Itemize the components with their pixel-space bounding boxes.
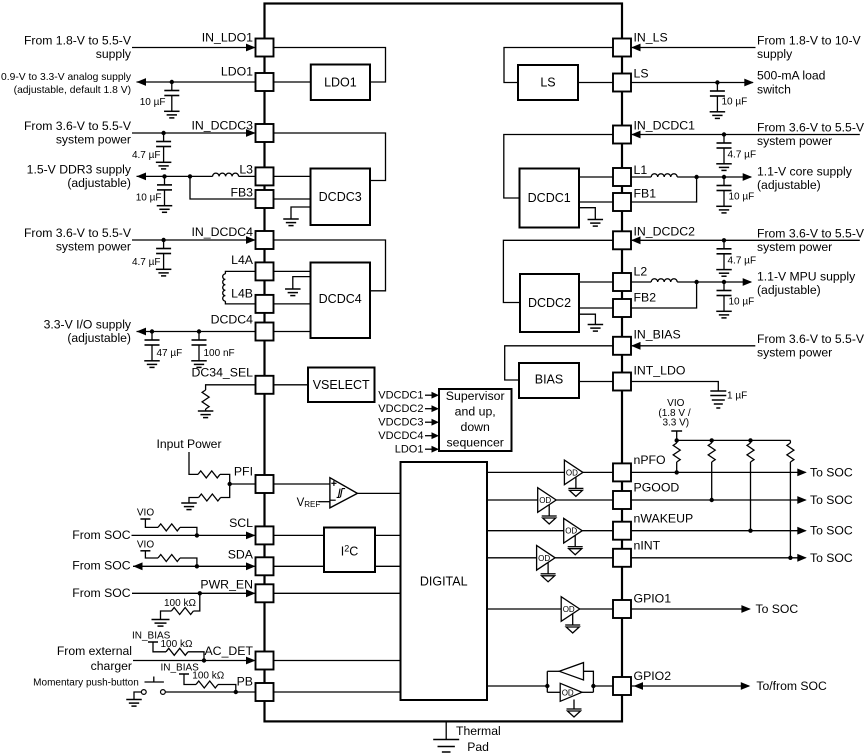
svg-text:From 1.8-V to 10-V: From 1.8-V to 10-V (757, 34, 862, 48)
wire AC_DET input (133, 660, 255, 662)
arrowhead into IN_DCDC4 (246, 236, 256, 244)
pin L3 (239, 163, 273, 186)
svg-text:100 nF: 100 nF (204, 348, 235, 359)
svg-text:supply: supply (96, 47, 132, 61)
svg-text:10 µF: 10 µF (729, 192, 755, 203)
wire PWR_EN input (132, 592, 255, 594)
svg-text:From SOC: From SOC (72, 528, 130, 542)
svg-text:From SOC: From SOC (72, 559, 130, 573)
wire FB3 pin to DCDC3 (274, 198, 311, 200)
label 3.3-V I/O supply (44, 318, 132, 346)
pin FB1 (613, 187, 656, 212)
node L3 cap junction (162, 174, 166, 178)
ground of DCDC3 (283, 207, 310, 226)
pin AC_DET (204, 644, 273, 670)
wire nWAKEUP to SOC (631, 530, 806, 532)
svg-text:L4A: L4A (231, 253, 254, 267)
wire IN_LDO1 input (132, 47, 255, 49)
svg-text:switch: switch (757, 83, 791, 97)
node DCDC4 cap junction 1 (150, 329, 154, 333)
svg-text:OD: OD (565, 527, 577, 536)
wire nINT buffer to pin (555, 557, 613, 559)
label VIO (1.8 V / 3.3 V) (658, 398, 690, 429)
wire SCL input (132, 534, 255, 536)
svg-text:Input Power: Input Power (156, 437, 221, 451)
label From 3.6-V to 5.5-V system power (DCDC4) (24, 226, 132, 254)
svg-text:I2C: I2C (341, 544, 359, 559)
pin LS (613, 67, 649, 92)
arrowhead into IN_BIAS (631, 342, 641, 350)
svg-text:10 µF: 10 µF (136, 193, 162, 204)
block supervisor/sequencer (439, 389, 512, 451)
wire FB3 feedback (190, 176, 256, 199)
pin IN_DCDC3 (192, 119, 274, 143)
wire GPIO2 top branch (547, 670, 559, 672)
svg-text:L2: L2 (634, 265, 648, 279)
wire GPIO2 bottom branch (547, 691, 560, 693)
node DCDC4 cap junction 2 (197, 329, 201, 333)
svg-text:IN_LDO1: IN_LDO1 (202, 31, 253, 45)
pin L4B (231, 287, 273, 313)
wire GPIO2 buffers to pin (593, 685, 613, 687)
wire L4A pin to DCDC4 (274, 270, 311, 272)
label From 3.6-V to 5.5-V system power (BIAS) (757, 332, 865, 360)
svg-text:IN_DCDC2: IN_DCDC2 (634, 225, 696, 239)
net VDCDC1 into sequencer (378, 390, 439, 402)
svg-text:OD: OD (562, 688, 574, 697)
wire L4B pin to DCDC4 (274, 303, 311, 305)
pin IN_BIAS (613, 328, 681, 355)
net VDCDC4 into sequencer (378, 430, 439, 442)
svg-text:(adjustable, default 1.8 V): (adjustable, default 1.8 V) (14, 85, 131, 96)
capacitor 4.7 uF (IN_DCDC3) with ground (132, 133, 171, 169)
svg-text:OD: OD (563, 605, 575, 614)
svg-text:and up,: and up, (455, 404, 496, 418)
wire GPIO2 left branch (546, 671, 548, 692)
svg-text:DCDC4: DCDC4 (319, 292, 362, 306)
wire SDA pin to I2C (274, 565, 325, 567)
svg-text:sequencer: sequencer (446, 436, 503, 450)
svg-text:FB2: FB2 (634, 291, 657, 305)
svg-text:IN_DCDC1: IN_DCDC1 (634, 119, 696, 133)
pin nPFO (613, 453, 666, 481)
open-drain buffer nPFO (564, 460, 583, 496)
pin SDA (228, 547, 274, 575)
label 1.1-V MPU supply (757, 270, 856, 298)
capacitor 1 uF (INT_LDO) with ground (710, 391, 747, 409)
block DCDC3 (311, 169, 371, 226)
wire comparator output to DIGITAL (357, 492, 400, 494)
net VDCDC2 into sequencer (378, 403, 439, 415)
svg-text:VIO: VIO (137, 508, 154, 519)
svg-text:LDO1: LDO1 (395, 444, 424, 456)
pin FB3 (230, 186, 273, 209)
wire INT_LDO pin to BIAS (579, 381, 613, 383)
wire PFI node down (221, 484, 230, 498)
svg-text:10 µF: 10 µF (729, 297, 755, 308)
svg-text:To SOC: To SOC (810, 493, 853, 507)
wire DIGITAL to GPIO2 buffers (487, 685, 547, 687)
svg-text:FB3: FB3 (230, 186, 253, 200)
block DCDC1 (520, 169, 580, 228)
svg-text:PFI: PFI (234, 465, 253, 479)
wire push-button to ground (134, 692, 141, 700)
wire LS pin to block (578, 82, 613, 84)
node LDO1 output cap junction (170, 80, 174, 84)
open-drain buffer nINT (537, 546, 556, 582)
arrowhead into SCL (246, 532, 256, 540)
arrowhead DCDC4 output (137, 328, 147, 336)
resistor pull-up nPFO (673, 440, 680, 472)
svg-text:From 3.6-V to 5.5-V: From 3.6-V to 5.5-V (24, 226, 132, 240)
node PFI divider (228, 482, 232, 486)
pin L4A (231, 253, 273, 280)
block LS (518, 65, 578, 100)
label From 3.6-V to 5.5-V system power (DCDC3) (24, 119, 132, 147)
svg-text:down: down (460, 420, 490, 434)
label 0.9-V to 3.3-V analog supply (1, 72, 132, 96)
arrowhead LDO1 output (137, 78, 147, 86)
svg-text:IN_DCDC3: IN_DCDC3 (192, 119, 254, 133)
wire INT_LDO to cap (631, 382, 718, 392)
arrowhead into IN_DCDC2 (631, 236, 641, 244)
svg-text:DC34_SEL: DC34_SEL (191, 366, 253, 380)
node GPIO2 buffer right (591, 684, 595, 688)
wire DC34_SEL to resistor (206, 385, 256, 390)
svg-text:47 µF: 47 µF (157, 348, 183, 359)
VIO tap (pull-up bus) (671, 431, 682, 440)
node nPFO pull-up junction (675, 470, 679, 474)
label To/from SOC (GPIO2) (756, 679, 827, 693)
svg-text:system power: system power (757, 134, 832, 148)
wire VREF to comparator minus (318, 500, 335, 502)
svg-text:4.7 µF: 4.7 µF (132, 150, 161, 161)
svg-text:LDO1: LDO1 (221, 65, 253, 79)
wire IN_DCDC4 to DCDC4 block input (274, 240, 386, 291)
wire IN_DCDC4 input (132, 239, 255, 241)
block DCDC2 (520, 274, 579, 332)
pin nWAKEUP (613, 512, 693, 540)
node L1 cap junction (722, 175, 726, 179)
wire IN_LS input (632, 47, 756, 49)
wire PFI pin to comparator (274, 483, 330, 485)
pin IN_DCDC1 (613, 119, 695, 144)
PMIC chip outline (265, 4, 623, 722)
arrowhead nPFO to SOC (797, 469, 807, 477)
svg-text:4.7 µF: 4.7 µF (132, 257, 161, 268)
svg-text:1 µF: 1 µF (727, 391, 747, 402)
arrowhead into GPIO2 (634, 682, 644, 690)
svg-text:100 kΩ: 100 kΩ (192, 671, 224, 682)
wire GPIO2 top branch right (584, 671, 594, 692)
svg-text:LDO1: LDO1 (324, 76, 357, 90)
label From SOC (SDA) (72, 559, 130, 573)
ground of DCDC1 (579, 208, 603, 226)
resistor SCL pullup (158, 524, 197, 536)
svg-text:To SOC: To SOC (810, 551, 853, 565)
wire GPIO2 bottom branch right (582, 691, 594, 693)
open-drain buffer PGOOD (538, 488, 557, 524)
svg-text:DCDC2: DCDC2 (528, 296, 571, 310)
label 500-mA load switch (757, 69, 825, 97)
wire DCDC4 output (137, 331, 256, 333)
svg-text:100 kΩ: 100 kΩ (164, 598, 196, 609)
node nINT pull-up junction (788, 556, 792, 560)
label To SOC (nPFO) (810, 465, 853, 479)
label To SOC (GPIO1) (756, 602, 799, 616)
label IN_BIAS (AC_DET pullup) (132, 631, 171, 642)
pin INT_LDO (613, 363, 685, 390)
ground of DCDC2 (579, 314, 603, 331)
node pull-up bus R2 (710, 438, 714, 442)
capacitor 4.7 uF (IN_DCDC1) with ground (716, 135, 756, 171)
ground of PFI divider (181, 503, 197, 510)
svg-text:3.3 V): 3.3 V) (662, 418, 689, 429)
block I2C (324, 528, 375, 573)
svg-text:DCDC3: DCDC3 (319, 190, 362, 204)
label VIO (SDA pullup) (137, 539, 154, 550)
wire L3 pin to DCDC3 (274, 175, 311, 177)
svg-text:BIAS: BIAS (535, 373, 564, 387)
svg-text:IN_DCDC4: IN_DCDC4 (192, 225, 254, 239)
pin SCL (229, 516, 273, 544)
node L1 FB1 junction (694, 175, 698, 179)
label 1.1-V core supply (757, 165, 853, 193)
resistor pull-up nWAKEUP (747, 440, 754, 530)
wire DIGITAL to nPFO buffer (487, 471, 564, 473)
resistor AC_DET pullup 100k (161, 639, 205, 661)
label From SOC (SCL) (72, 528, 130, 542)
svg-text:To SOC: To SOC (756, 602, 799, 616)
pin IN_LS (613, 31, 668, 57)
pin PWR_EN (200, 578, 273, 603)
op-amp comparator (PFI) (330, 478, 358, 508)
svg-text:(adjustable): (adjustable) (757, 178, 821, 192)
wire L1 pin to DCDC1 (579, 176, 613, 178)
svg-text:From 3.6-V to 5.5-V: From 3.6-V to 5.5-V (24, 119, 132, 133)
wire DIGITAL to PGOOD buffer (487, 499, 538, 501)
block VSELECT (308, 368, 375, 403)
svg-text:Momentary push-button: Momentary push-button (33, 677, 139, 688)
wire GPIO1 buffer to pin (580, 608, 613, 610)
wire FB1 feedback (579, 201, 613, 203)
net VDCDC3 into sequencer (378, 417, 439, 429)
svg-text:charger: charger (91, 659, 132, 673)
wire nPFO buffer to pin (583, 471, 613, 473)
svg-text:4.7 µF: 4.7 µF (728, 150, 757, 161)
ground of DC34_SEL resistor (198, 411, 214, 418)
wire Input Power to divider (189, 452, 198, 474)
svg-text:L1: L1 (634, 163, 648, 177)
wire L1 output (677, 176, 751, 178)
wire GPIO1 to SOC (631, 608, 750, 610)
resistor PB pullup 100k (192, 671, 236, 692)
label To SOC (nINT) (810, 551, 853, 565)
svg-text:VREF: VREF (297, 497, 321, 509)
block DIGITAL (401, 462, 488, 700)
ground of thermal pad (433, 740, 459, 753)
wire IN_DCDC2 input (632, 239, 860, 241)
svg-text:nWAKEUP: nWAKEUP (634, 512, 694, 526)
wire LDO1 output (137, 81, 256, 83)
inductor L1 (631, 174, 677, 177)
svg-text:OD: OD (566, 468, 578, 477)
capacitor 10 uF (core supply) with ground (716, 177, 754, 213)
svg-text:DCDC1: DCDC1 (528, 191, 571, 205)
svg-text:system power: system power (56, 133, 131, 147)
pin L2 (613, 265, 647, 292)
arrowhead into IN_LDO1 (246, 44, 256, 52)
capacitor 10 uF (MPU supply) with ground (716, 282, 754, 318)
svg-text:From external: From external (57, 644, 132, 658)
wire PWR_EN pin to DIGITAL (274, 592, 401, 594)
buffer GPIO1 (561, 597, 580, 633)
capacitor 4.7 uF (IN_DCDC4) with ground (132, 240, 171, 276)
wire IN_DCDC1 input (632, 134, 860, 136)
svg-text:system power: system power (757, 345, 832, 359)
svg-text:From SOC: From SOC (72, 586, 130, 600)
svg-text:AC_DET: AC_DET (204, 644, 253, 658)
capacitor 47 uF with ground (144, 332, 182, 368)
wire IN_LS to LS block input (504, 48, 613, 83)
pin IN_DCDC4 (192, 225, 274, 249)
inductor L3 (213, 173, 256, 176)
svg-text:10 µF: 10 µF (140, 97, 166, 108)
label VREF (297, 497, 321, 509)
wire DIGITAL to GPIO1 buffer (487, 608, 561, 610)
arrowhead GPIO1 to SOC (741, 605, 751, 613)
pin L1 (613, 163, 647, 186)
svg-text:SCL: SCL (229, 516, 253, 530)
node pull-up bus at VIO (675, 438, 679, 442)
resistor PFI divider lower (189, 494, 221, 503)
label From 3.6-V to 5.5-V system power (DCDC1) (757, 121, 865, 149)
label 1.5-V DDR3 supply (27, 163, 132, 191)
thermal pad connection (445, 721, 447, 739)
arrowhead L1 output (743, 173, 753, 181)
wire SDA bidirectional (133, 565, 255, 567)
wire IN_DCDC3 input (132, 132, 255, 134)
pin PGOOD (613, 481, 679, 510)
VIO tap (SDA) (140, 551, 158, 558)
svg-text:OD: OD (539, 496, 551, 505)
wire IN_DCDC2 to DCDC2 block input (503, 240, 613, 302)
IN_BIAS tap (AC_DET) (148, 642, 166, 652)
pin GPIO2 (613, 669, 671, 695)
svg-text:From 3.6-V to 5.5-V: From 3.6-V to 5.5-V (757, 332, 865, 346)
node LS cap junction (715, 80, 719, 84)
svg-text:VDCDC1: VDCDC1 (378, 390, 423, 402)
arrowhead nINT to SOC (797, 554, 807, 562)
node PGOOD pull-up junction (710, 498, 714, 502)
svg-text:supply: supply (757, 47, 793, 61)
svg-text:To SOC: To SOC (810, 524, 853, 538)
label Thermal Pad (456, 724, 501, 754)
svg-text:(adjustable): (adjustable) (757, 283, 821, 297)
wire push-button to PB pin (165, 691, 255, 693)
svg-text:Thermal: Thermal (456, 724, 501, 738)
open-drain buffer GPIO2 (right-pointing) (560, 683, 582, 701)
wire PGOOD to SOC (631, 499, 806, 501)
wire AC_DET pin to DIGITAL (274, 660, 401, 662)
wire IN_LDO1 to LDO1 block input (274, 48, 386, 83)
wire SCL pin to I2C (274, 534, 325, 536)
pin FB2 (613, 291, 656, 318)
svg-text:L3: L3 (239, 163, 253, 177)
svg-text:1.5-V DDR3 supply: 1.5-V DDR3 supply (27, 163, 132, 177)
block BIAS (519, 363, 579, 398)
node IN_DCDC2 cap junction (722, 238, 726, 242)
wire DC34_SEL to VSELECT (274, 384, 309, 386)
label Input Power (156, 437, 221, 451)
wire PGOOD buffer to pin (556, 499, 613, 501)
svg-text:LS: LS (634, 67, 649, 81)
ground of PWR_EN resistor (152, 620, 170, 627)
wire nWAKEUP buffer to pin (582, 530, 613, 532)
svg-text:1.1-V core supply: 1.1-V core supply (757, 165, 853, 179)
capacitor 10 uF (DDR3 supply) with ground (136, 176, 173, 212)
block DCDC4 (311, 263, 371, 339)
arrowhead PGOOD to SOC (797, 496, 807, 504)
wire DIGITAL to nINT buffer (487, 557, 537, 559)
svg-text:LS: LS (540, 76, 555, 90)
wire I2C to DIGITAL (SDA) (375, 565, 401, 567)
label IN_BIAS (PB pullup) (161, 662, 200, 673)
wire IN_DCDC3 to DCDC3 block input (274, 133, 386, 181)
capacitor 100 nF with ground (191, 332, 234, 368)
ground of GPIO2 buffer (567, 700, 582, 718)
wire LS output (631, 82, 753, 84)
capacitor 10 uF (LDO1) with ground (140, 82, 180, 118)
svg-text:10 µF: 10 µF (722, 97, 748, 108)
svg-text:VDCDC3: VDCDC3 (378, 417, 423, 429)
wire nINT to SOC (631, 557, 806, 559)
pin GPIO1 (613, 592, 671, 619)
VIO tap (SCL) (140, 519, 158, 527)
node PWR_EN pulldown junction (198, 591, 202, 595)
arrowhead into PWR_EN (246, 589, 256, 597)
pin IN_DCDC2 (613, 225, 695, 250)
svg-text:500-mA load: 500-mA load (757, 69, 825, 83)
wire FB2 feedback (579, 307, 613, 309)
wire GPIO2 to SOC (631, 685, 749, 687)
IN_BIAS tap (PB) (179, 674, 196, 685)
label From 3.6-V to 5.5-V system power (DCDC2) (757, 226, 865, 254)
open-drain buffer nWAKEUP (564, 518, 583, 554)
node nWAKEUP pull-up junction (748, 529, 752, 533)
wire IN_DCDC1 to DCDC1 block input (504, 135, 613, 199)
wire L2 output (677, 281, 751, 283)
label From 1.8-V to 10-V supply (757, 34, 862, 62)
svg-text:To/from SOC: To/from SOC (756, 679, 827, 693)
label To SOC (nWAKEUP) (810, 524, 853, 538)
svg-text:INT_LDO: INT_LDO (634, 363, 686, 377)
svg-text:Pad: Pad (467, 740, 489, 754)
arrowhead into IN_LS (631, 44, 641, 52)
capacitor 10 uF (LS) with ground (710, 83, 748, 119)
label From 1.8-V to 5.5-V supply (24, 34, 132, 62)
svg-text:VSELECT: VSELECT (313, 378, 370, 392)
resistor PWR_EN pulldown 100k (161, 593, 200, 619)
svg-text:Supervisor: Supervisor (446, 389, 505, 403)
svg-text:FB1: FB1 (634, 187, 657, 201)
node L2 FB2 junction (694, 280, 698, 284)
wire inductor to L4B (225, 301, 255, 304)
svg-text:VDCDC2: VDCDC2 (378, 403, 423, 415)
svg-text:DIGITAL: DIGITAL (420, 575, 468, 589)
wire DIGITAL to nWAKEUP buffer (487, 530, 564, 532)
label VIO (SCL pullup) (137, 508, 154, 519)
